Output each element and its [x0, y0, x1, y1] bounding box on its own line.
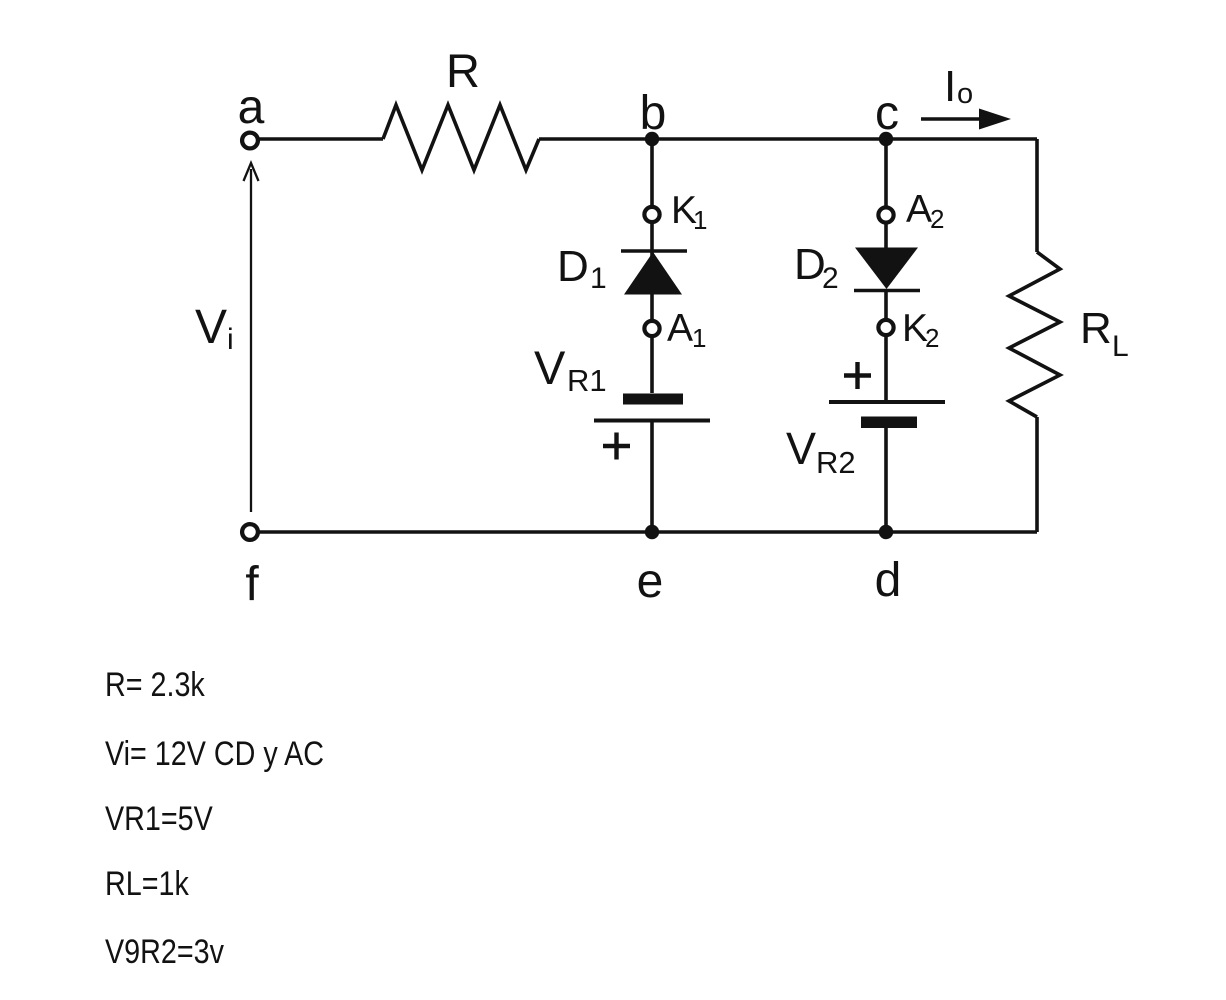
- node e: [645, 525, 659, 539]
- node c: [879, 132, 893, 146]
- wire VR2 to d: [884, 428, 888, 532]
- svg-text:V: V: [195, 301, 227, 354]
- source arrow Vi: [244, 163, 259, 512]
- svg-text:D: D: [794, 240, 826, 289]
- svg-text:R2: R2: [816, 445, 856, 480]
- svg-text:R: R: [1080, 304, 1112, 353]
- diode D1: [621, 251, 687, 295]
- wire bottom (f to e to d to corner): [259, 530, 1037, 534]
- svg-text:1: 1: [590, 262, 607, 295]
- svg-text:2: 2: [925, 323, 939, 353]
- resistor R: [383, 105, 539, 170]
- svg-text:1: 1: [693, 205, 707, 235]
- wire K2 to VR2: [884, 336, 888, 402]
- svg-text:V: V: [534, 341, 566, 394]
- battery VR1: [594, 394, 710, 421]
- svg-text:d: d: [875, 554, 902, 607]
- svg-text:L: L: [1112, 330, 1129, 363]
- svg-text:Vi= 12V CD y AC: Vi= 12V CD y AC: [105, 735, 324, 773]
- svg-text:R= 2.3k: R= 2.3k: [105, 666, 205, 704]
- svg-text:I: I: [944, 62, 956, 111]
- svg-text:D: D: [557, 242, 589, 291]
- wire K1 to D1: [650, 223, 654, 260]
- pin A2: [878, 207, 893, 222]
- svg-text:RL=1k: RL=1k: [105, 865, 189, 903]
- pin K2: [878, 320, 893, 335]
- pin K1: [644, 207, 659, 222]
- battery VR2: [829, 402, 945, 428]
- wire top (R to b to c to corner): [539, 137, 1037, 141]
- resistor RL: [1009, 252, 1060, 417]
- svg-text:R: R: [446, 44, 480, 97]
- wire right upper: [1035, 139, 1039, 252]
- svg-text:V: V: [786, 423, 816, 474]
- terminal f: [242, 524, 258, 540]
- plus sign VR1: [603, 433, 630, 460]
- plus sign VR2: [844, 362, 871, 389]
- terminal a: [242, 133, 258, 149]
- svg-text:o: o: [957, 78, 973, 110]
- node d: [879, 525, 893, 539]
- wire A2 to D2: [884, 223, 888, 250]
- pin A1: [644, 321, 659, 336]
- svg-text:b: b: [640, 87, 667, 140]
- svg-text:A: A: [906, 188, 932, 231]
- svg-text:f: f: [245, 558, 259, 611]
- wire D1 to A1: [650, 294, 654, 321]
- wire b to K1: [650, 139, 654, 206]
- svg-text:VR1=5V: VR1=5V: [105, 800, 213, 838]
- svg-text:1: 1: [692, 323, 706, 353]
- svg-text:2: 2: [822, 262, 839, 295]
- svg-text:A: A: [667, 307, 693, 350]
- wire A1 to VR1: [650, 337, 654, 393]
- wire right lower: [1035, 417, 1039, 532]
- wire D2 to K2: [884, 290, 888, 320]
- diode D2: [854, 248, 920, 291]
- wire c to A2: [884, 139, 888, 206]
- wire VR1 to e: [650, 421, 654, 533]
- current arrow Io: [921, 109, 1011, 130]
- svg-text:V9R2=3v: V9R2=3v: [105, 933, 224, 971]
- svg-text:R1: R1: [567, 363, 607, 398]
- svg-text:e: e: [637, 555, 664, 608]
- wire top left (a to R): [259, 137, 383, 141]
- svg-text:2: 2: [930, 204, 944, 234]
- svg-text:c: c: [875, 87, 899, 140]
- node b: [645, 132, 659, 146]
- svg-text:a: a: [238, 81, 265, 134]
- svg-text:i: i: [227, 323, 234, 356]
